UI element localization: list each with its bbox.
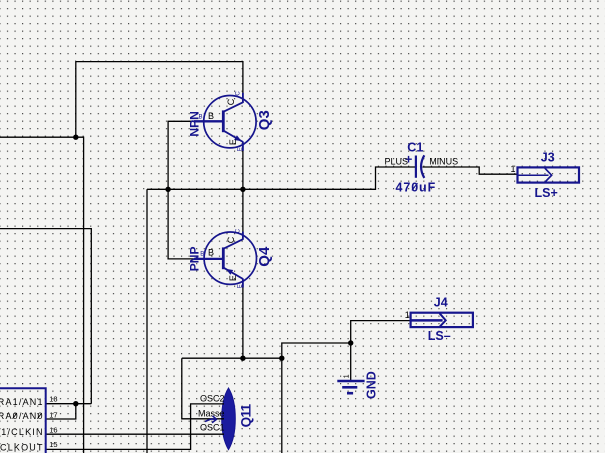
transistor Q4 [194,232,257,288]
svg-text:1: 1 [405,310,410,320]
svg-text:B: B [208,111,214,121]
svg-text:18: 18 [49,394,57,403]
svg-text:E: E [238,284,244,288]
wire from left edge at y228 down to pin 18 corner [0,229,91,404]
svg-text:C: C [226,98,236,105]
svg-text:RA0/AN0: RA0/AN0 [0,411,44,421]
svg-text:Q4: Q4 [256,246,273,267]
svg-text:OSC2/CLKOUT: OSC2/CLKOUT [0,442,44,452]
svg-text:LS+: LS+ [535,186,558,200]
ground [337,381,364,393]
svg-text:C: C [226,236,236,243]
svg-text:B: B [200,252,204,258]
wire pin 18 net [46,403,92,405]
wire pin 15 net to Q11 OSC2 pin [46,404,224,450]
wire vertical off bottom edge from node B [281,358,283,453]
wire down to Q11 Masse pin [182,358,224,419]
wire step up to GND node [282,343,351,358]
junction base link / mid net [165,187,170,192]
junction node B [240,356,245,361]
svg-text:B: B [208,247,214,257]
wire J4 pin 1 to GND symbol [351,321,411,381]
resonator Q11 body [222,388,236,450]
connector J4 [411,313,473,327]
wire C1 minus plate to J3 pin 1 [423,167,518,174]
wire node B horizontal segment [182,357,282,359]
wire vertical from top net corner down to node A [75,62,77,138]
svg-text:OSC1/CLKIN: OSC1/CLKIN [0,427,44,437]
svg-text:1: 1 [511,164,516,174]
connector J3 [518,167,580,182]
svg-text:OSC2: OSC2 [200,394,225,404]
wire Q3 base to Q4 base [168,121,197,259]
wire pin 16 net to Q11 OSC1 pin [46,433,224,435]
svg-text:C: C [236,91,242,96]
wire from left edge through node A then long vertical off bottom edge [0,137,84,453]
wire vertical from mid net corner off bottom edge [146,189,148,453]
svg-text:B: B [199,114,203,120]
junction node A [73,135,78,140]
svg-text:MINUS: MINUS [429,157,458,167]
svg-text:Masse: Masse [198,409,225,419]
svg-text:Q11: Q11 [238,403,253,427]
svg-text:15: 15 [49,440,57,449]
wire top net from node A to Q3 collector [76,62,243,103]
wire Q3 emitter to Q4 collector [242,144,244,236]
svg-text:16: 16 [49,426,57,435]
svg-text:OSC1: OSC1 [200,423,225,433]
svg-text:PLUS: PLUS [385,157,409,167]
svg-text:470uF: 470uF [396,180,437,194]
svg-text:LS–: LS– [428,329,451,343]
svg-text:E: E [228,275,238,281]
junction node B step [279,356,284,361]
Q11 Masse pin arrow [205,416,217,423]
svg-text:E: E [238,147,244,151]
svg-text:Q3: Q3 [256,110,273,130]
svg-text:E: E [228,139,238,145]
value label 470uF [396,180,437,194]
wire Q4 emitter down to node B [242,283,244,358]
wire pin 17 to pin 18 link [46,404,76,419]
U1 pin name RA0/AN0 [0,411,44,421]
svg-text:RA1/AN1: RA1/AN1 [0,397,44,407]
capacitor C1 [416,155,424,178]
svg-text:17: 17 [49,410,57,419]
svg-text:J4: J4 [434,295,448,309]
transistor Q3 [194,93,256,151]
junction pin 18 / pin 17 [73,401,78,406]
wire mid horizontal net to capacitor C1 [147,167,415,189]
junction emitters / mid net [240,187,245,192]
svg-text:PNP: PNP [187,247,201,272]
svg-text:C: C [236,228,242,233]
svg-text:GND: GND [364,371,378,399]
svg-text:J3: J3 [541,151,555,165]
svg-text:1: 1 [343,374,350,378]
IC U1 box outline [0,388,46,453]
junction J4 net / GND [348,340,353,345]
